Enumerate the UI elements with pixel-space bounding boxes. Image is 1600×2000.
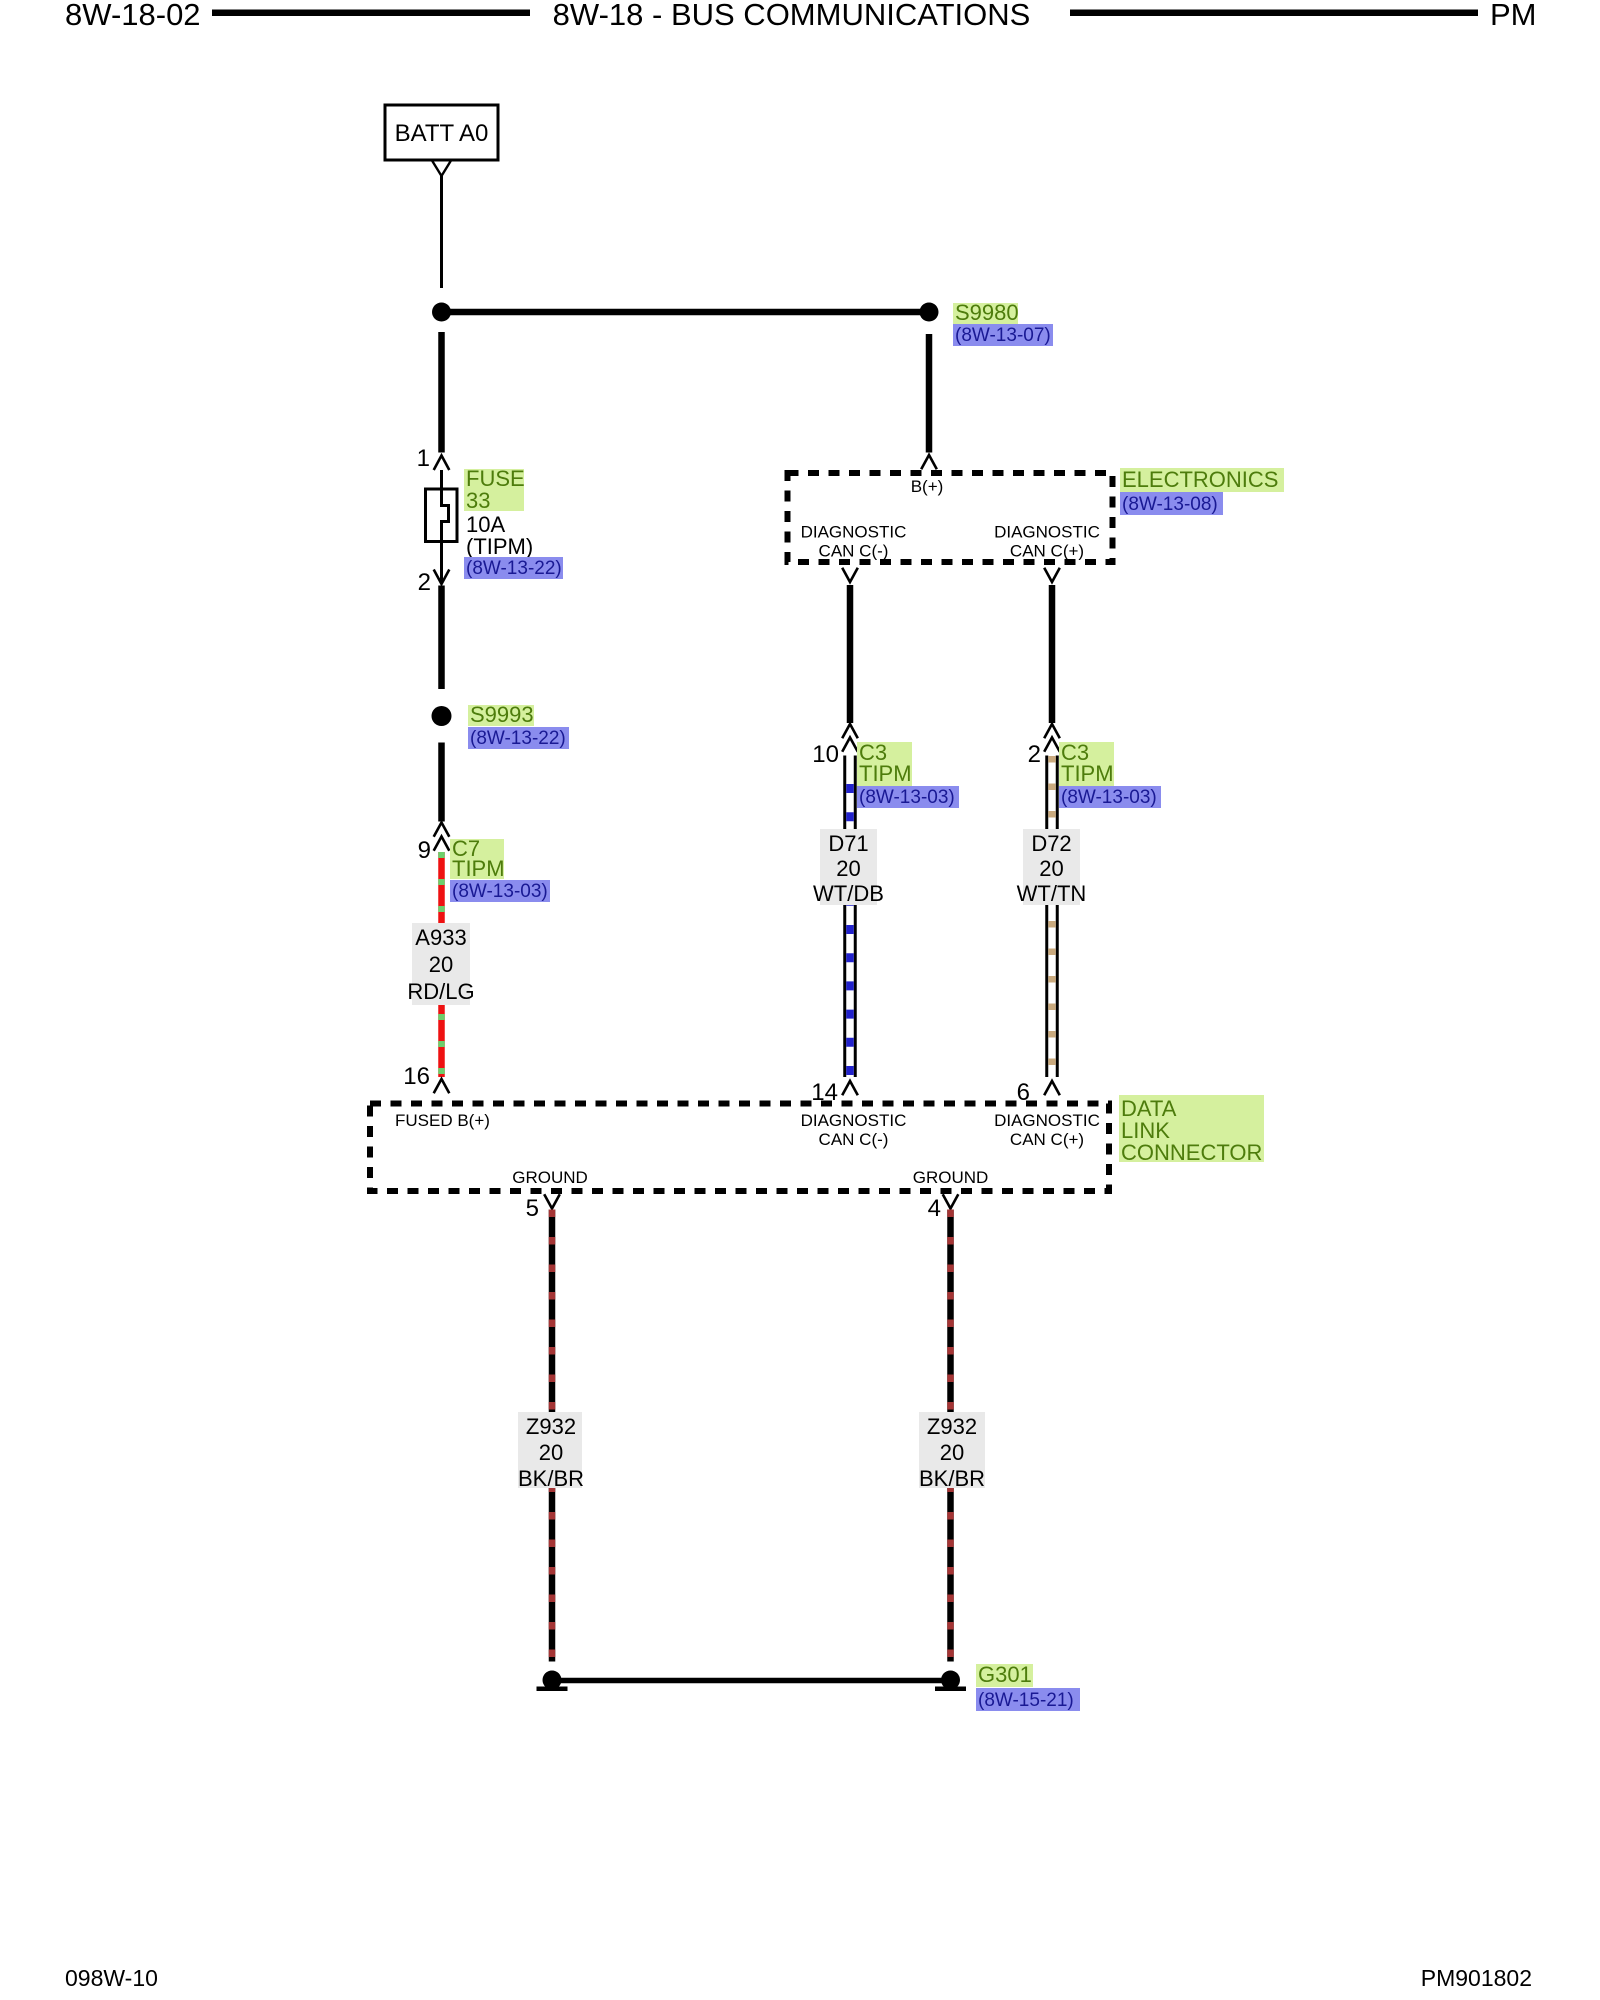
label DIAGNOSTIC CAN C(-) inside DLC [801,1111,907,1149]
pin B(+) arrow into ELECTRONICS [921,455,937,469]
label D71 20 WT/DB [813,829,884,906]
svg-text:20: 20 [940,1440,964,1465]
svg-text:RD/LG: RD/LG [407,979,474,1004]
label FUSE 33 10A (TIPM) (8W-13-22) [464,466,563,579]
wire ELECTRONICS CAN C(-) to C3 pin 10 [847,585,854,723]
svg-text:TIPM: TIPM [452,856,505,881]
svg-text:(8W-13-08): (8W-13-08) [1122,494,1218,515]
svg-text:(8W-13-07): (8W-13-07) [955,325,1051,346]
svg-text:098W-10: 098W-10 [65,1965,158,1991]
svg-text:CAN C(-): CAN C(-) [819,1130,889,1149]
svg-text:ELECTRONICS: ELECTRONICS [1122,467,1278,492]
svg-text:(8W-13-22): (8W-13-22) [466,558,562,579]
svg-text:(TIPM): (TIPM) [466,534,533,559]
svg-text:2: 2 [1028,741,1041,768]
wire A933 20 RD/LG red with light green tracer [438,852,445,1077]
wire ELECTRONICS CAN C(+) to C3 pin 2 [1049,585,1056,723]
fuse F33 body [426,489,458,542]
svg-text:B(+): B(+) [911,477,944,496]
svg-text:20: 20 [1039,856,1063,881]
svg-text:FUSED B(+): FUSED B(+) [395,1111,490,1130]
junction dot left of S9980 bus [432,303,451,322]
label C3 TIPM (8W-13-03) left [857,740,959,808]
svg-text:DIAGNOSTIC: DIAGNOSTIC [801,523,907,542]
label C7 TIPM (8W-13-03) [450,836,550,902]
wire fuse pin 2 to splice S9993 [438,586,445,690]
svg-text:33: 33 [466,488,490,513]
label A933 20 RD/LG [407,923,474,1005]
svg-text:8W-18 - BUS COMMUNICATIONS: 8W-18 - BUS COMMUNICATIONS [553,0,1031,32]
svg-text:DIAGNOSTIC: DIAGNOSTIC [801,1111,907,1130]
battery feed BATT A0 box [385,105,498,160]
svg-text:20: 20 [429,952,453,977]
wire Z932 20 BK/BR left black with brown tracer [549,1210,556,1662]
pin arrow CAN C(-) out of ELECTRONICS [842,568,858,582]
svg-text:2: 2 [418,569,431,596]
pin 14 of data link connector [811,1079,858,1106]
svg-text:BK/BR: BK/BR [919,1466,985,1491]
wire D72 20 WT/TN white with tan tracer [1045,756,1059,1078]
pin 1 of fuse [417,445,450,472]
svg-text:WT/TN: WT/TN [1017,881,1087,906]
svg-text:DIAGNOSTIC: DIAGNOSTIC [994,523,1100,542]
junction dot right of S9980 bus [920,303,939,322]
svg-text:Z932: Z932 [927,1414,977,1439]
svg-text:(8W-13-22): (8W-13-22) [470,728,566,749]
svg-text:TIPM: TIPM [1061,761,1114,786]
label DIAGNOSTIC CAN C(+) inside ELECTRONICS [994,523,1100,561]
svg-text:10: 10 [812,741,839,768]
label S9993 (8W-13-22) [468,702,569,749]
svg-text:CAN C(+): CAN C(+) [1010,542,1084,561]
label ELECTRONICS (8W-13-08) [1120,467,1284,515]
svg-text:1: 1 [417,445,430,472]
label DIAGNOSTIC CAN C(-) inside ELECTRONICS [801,523,907,561]
svg-text:GROUND: GROUND [913,1168,989,1187]
wire D71 20 WT/DB white with dark blue tracer [843,756,857,1078]
ground junction dot right [941,1671,960,1690]
DATA LINK CONNECTOR dashed box [370,1104,1109,1192]
header right rule [1070,10,1478,17]
svg-text:Z932: Z932 [526,1414,576,1439]
svg-text:S9980: S9980 [955,300,1019,325]
svg-text:PM: PM [1490,0,1537,32]
svg-text:8W-18-02: 8W-18-02 [65,0,201,32]
wire fuse to pin 2 [440,541,443,582]
svg-text:BK/BR: BK/BR [518,1466,584,1491]
label DATA LINK CONNECTOR [1119,1095,1264,1165]
connector symbol below BATT A0 [432,161,451,177]
svg-text:(8W-13-03): (8W-13-03) [452,881,548,902]
splice bus S9980 horizontal wire [442,309,930,316]
svg-text:9: 9 [418,837,431,864]
ground bus wire [552,1678,951,1684]
svg-text:S9993: S9993 [470,702,534,727]
label C3 TIPM (8W-13-03) right [1059,740,1161,808]
pin arrow CAN C(+) out of ELECTRONICS [1044,568,1060,582]
svg-text:D72: D72 [1031,831,1071,856]
splice S9993 dot [432,706,452,726]
svg-text:BATT A0: BATT A0 [395,120,489,147]
wire Z932 20 BK/BR right black with brown tracer [947,1210,954,1662]
svg-text:(8W-13-03): (8W-13-03) [859,787,955,808]
header left rule [212,10,530,17]
svg-text:D71: D71 [828,831,868,856]
pin 6 of data link connector [1017,1079,1060,1106]
svg-text:PM901802: PM901802 [1421,1965,1532,1991]
svg-text:5: 5 [526,1195,539,1222]
svg-text:TIPM: TIPM [859,761,912,786]
svg-text:(8W-13-03): (8W-13-03) [1061,787,1157,808]
label DIAGNOSTIC CAN C(+) inside DLC [994,1111,1100,1149]
connector C7 pin 9 double chevrons [418,823,450,865]
label D72 20 WT/TN [1017,829,1087,906]
connector C3 pin 10 double chevrons [812,724,858,768]
svg-text:G301: G301 [978,1662,1032,1687]
svg-text:20: 20 [836,856,860,881]
svg-text:WT/DB: WT/DB [813,881,884,906]
ELECTRONICS module dashed box [788,473,1113,562]
pin 5 of data link connector [526,1194,560,1222]
svg-text:A933: A933 [415,925,466,950]
svg-text:CAN C(-): CAN C(-) [819,542,889,561]
wire S9993 to connector C7 pin 9 [438,743,445,822]
connector C3 pin 2 double chevrons [1028,724,1060,768]
svg-text:CAN C(+): CAN C(+) [1010,1130,1084,1149]
label G301 (8W-15-21) [976,1662,1080,1711]
pin 4 of data link connector [928,1194,959,1222]
pin 2 of fuse [418,569,450,596]
wire S9980 to fuse pin 1 [438,332,445,453]
ground symbol bar left [537,1687,568,1692]
pin 16 of data link connector [403,1063,449,1093]
label S9980 (8W-13-07) [953,300,1053,346]
svg-text:GROUND: GROUND [512,1168,588,1187]
ground symbol bar right [935,1687,966,1692]
svg-text:DIAGNOSTIC: DIAGNOSTIC [994,1111,1100,1130]
wire BATT A0 down to splice bus S9980 [440,176,443,288]
wire S9980 to ELECTRONICS B(+) [926,334,933,453]
svg-text:4: 4 [928,1195,941,1222]
svg-text:(8W-15-21): (8W-15-21) [978,1690,1074,1711]
wire pin1 into fuse [440,470,443,490]
label Z932 20 BK/BR right [919,1412,985,1491]
svg-text:CONNECTOR: CONNECTOR [1121,1140,1262,1165]
label Z932 20 BK/BR left [518,1412,584,1491]
ground junction dot left [543,1671,562,1690]
svg-text:16: 16 [403,1063,430,1090]
svg-text:20: 20 [539,1440,563,1465]
